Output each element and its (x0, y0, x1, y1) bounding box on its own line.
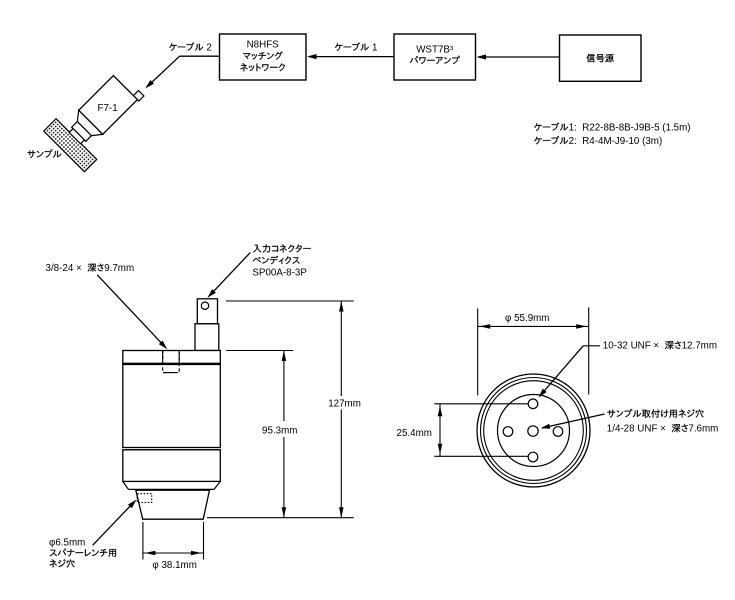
face view: right mounting hole (553, 427, 563, 437)
svg-text:φ 55.9mm: φ 55.9mm (505, 313, 549, 324)
side view: lower ring section (123, 450, 221, 482)
svg-text:SP00A-8-3P: SP00A-8-3P (252, 268, 307, 279)
dim 127mm extension line bottom (207, 517, 354, 519)
face view: top mounting hole (528, 399, 538, 409)
dim φ55.9 extension line right (588, 307, 590, 394)
leader to top hole (583, 345, 600, 347)
note ケーブル2 part number (534, 136, 568, 144)
transducer F7-1 body (79, 76, 138, 135)
svg-text:1: R22-8B-8B-J9B-5 (1.5m): 1: R22-8B-8B-J9B-5 (1.5m) (569, 123, 691, 134)
label サンプル (28, 150, 62, 159)
dim φ38.1 line with arrows (143, 552, 204, 554)
dim 127mm line lower segment (340, 410, 342, 518)
dim 95.3mm extension line top (226, 350, 293, 352)
svg-text:φ6.5mm: φ6.5mm (49, 537, 85, 548)
transducer F7-1 tip (69, 129, 84, 144)
svg-text:25.4mm: 25.4mm (397, 428, 432, 439)
wire ケーブル2 from マッチングネットワーク to transducer (180, 55, 220, 57)
leader arrow to threaded hole (97, 275, 166, 348)
svg-text:127mm: 127mm (328, 399, 361, 410)
dim 25.4 extension line top (434, 403, 528, 405)
face view: outer circle (477, 374, 590, 487)
leader arrow to spanner hole (93, 501, 136, 545)
face view: center sample hole (528, 426, 538, 436)
label サンプル取付け用ネジ穴 (607, 409, 703, 418)
sample block (hatched サンプル) (44, 119, 97, 172)
wire cable from 信号源 to パワーアンプ with arrow (479, 56, 560, 58)
svg-text:1/4-28 UNF ×: 1/4-28 UNF × (607, 424, 672, 435)
svg-text:F7-1: F7-1 (98, 103, 118, 114)
svg-text:3/8-24 ×: 3/8-24 × (46, 263, 88, 274)
side view: connector stem (195, 324, 219, 351)
dim φ55.9 extension line left (477, 308, 479, 395)
side view: dotted spanner hole (137, 494, 152, 503)
block N8HFS マッチングネットワーク (matching network) (220, 34, 307, 80)
side view: chamfer bottom line (128, 488, 214, 490)
face view: circle 3 (484, 381, 584, 481)
svg-text:N8HFS: N8HFS (247, 40, 280, 51)
svg-text:12.7mm: 12.7mm (682, 341, 717, 352)
side view: chamfer left (123, 481, 129, 489)
transducer F7-1 taper (72, 110, 102, 140)
label ケーブル 2 (169, 43, 203, 51)
svg-text:95.3mm: 95.3mm (262, 426, 297, 437)
side view: chamfer right (214, 481, 220, 489)
svg-text:2: 2 (204, 43, 212, 54)
label 3/8-24 × 深さ 9.7mm (88, 264, 104, 272)
side view: cone (tapered nose) (136, 490, 210, 519)
face view: circle 2 (481, 378, 587, 484)
dim 127mm line upper segment (340, 301, 342, 396)
wire ケーブル1 from パワーアンプ to マッチングネットワーク with arrow (309, 56, 394, 58)
transducer F7-1 neck (72, 122, 92, 142)
side view: connector circle detail (201, 302, 208, 309)
side view: body/ring separation line (123, 449, 221, 451)
svg-text:φ 38.1mm: φ 38.1mm (152, 560, 196, 571)
face view: inner circle (498, 395, 570, 467)
dim 25.4 line with arrows (439, 404, 441, 457)
label 入力コネクター ベンディクス SP00A-8-3P (253, 244, 311, 252)
dim 95.3mm line lower segment (283, 437, 285, 518)
block WST7B³ パワーアンプ (power amp) (394, 34, 476, 80)
leader to center hole (543, 414, 605, 428)
svg-text:1: 1 (369, 43, 377, 54)
side view: connector upper body (197, 299, 217, 324)
label 10-32 UNF × 深さ 12.7mm (665, 341, 681, 349)
leader arrow to connector top (209, 252, 251, 296)
label 1/4-28 UNF × 深さ 7.6mm (672, 424, 688, 432)
svg-text:7.6mm: 7.6mm (688, 424, 718, 435)
dim φ38.1 extension line right (203, 522, 205, 560)
face view: bottom mounting hole (528, 452, 538, 462)
side view: dashed 3/8-24 threaded hole (163, 351, 180, 373)
transducer F7-1 connector stub (133, 90, 144, 101)
label ケーブル 1 (335, 43, 369, 51)
side view: top cap (123, 351, 221, 364)
block 信号源 (signal source) (560, 35, 642, 81)
side view: cap bottom thick line (123, 363, 221, 365)
note ケーブル1 part number (534, 123, 568, 131)
face view: left mounting hole (503, 427, 513, 437)
svg-text:9.7mm: 9.7mm (104, 263, 134, 274)
svg-text:WST7B³: WST7B³ (416, 45, 454, 56)
dim φ55.9 line with arrows (478, 325, 589, 327)
svg-text:2: R4-4M-J9-10 (3m): 2: R4-4M-J9-10 (3m) (569, 136, 663, 147)
svg-text:10-32 UNF ×: 10-32 UNF × (603, 341, 665, 352)
dim 95.3mm line upper segment (283, 351, 285, 422)
side view: main body (123, 364, 221, 448)
dim 25.4 extension line bottom (434, 455, 528, 457)
dim φ38.1 extension line left (142, 522, 144, 560)
dim 127mm extension line top (226, 300, 354, 302)
